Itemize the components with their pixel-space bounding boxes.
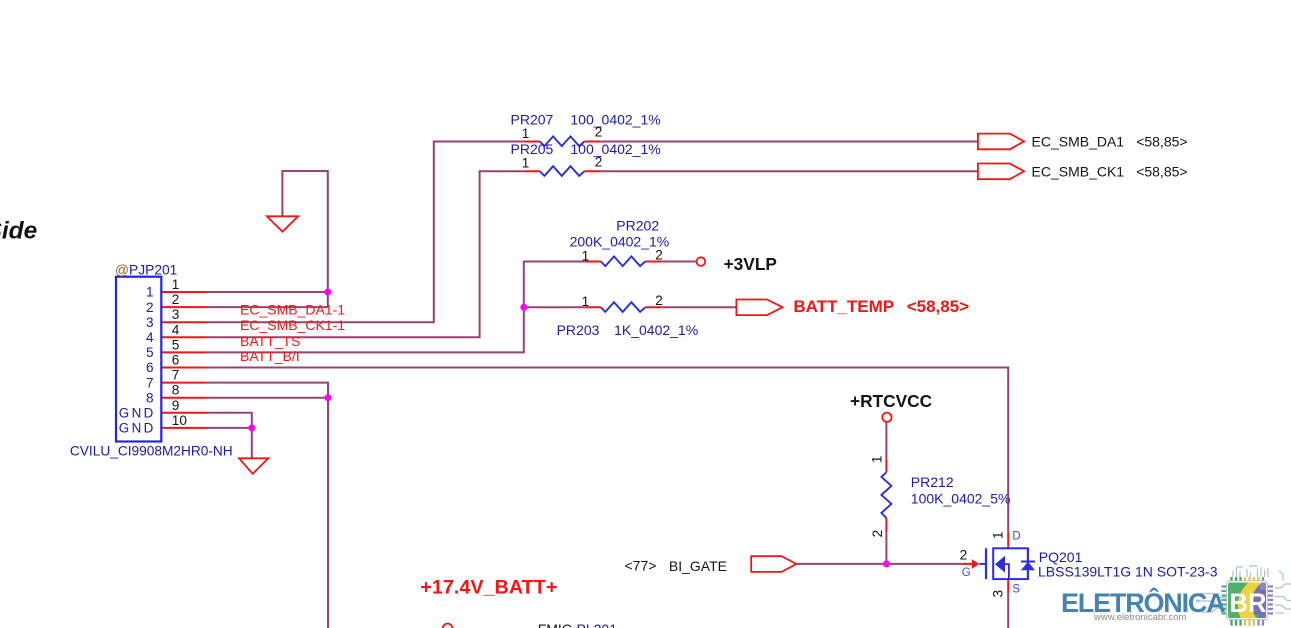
- svg-text:PR203: PR203: [557, 322, 600, 338]
- svg-text:5: 5: [146, 345, 154, 360]
- svg-text:EC_SMB_DA1: EC_SMB_DA1: [1032, 133, 1125, 149]
- svg-text:4: 4: [146, 330, 154, 345]
- svg-text:9: 9: [172, 398, 180, 413]
- svg-text:BATT_TEMP: BATT_TEMP: [793, 297, 894, 316]
- svg-text:1: 1: [522, 126, 530, 141]
- svg-text:3: 3: [172, 307, 180, 322]
- svg-text:3: 3: [146, 315, 154, 330]
- svg-text:1: 1: [146, 285, 154, 300]
- svg-text:2: 2: [655, 247, 663, 262]
- svg-text:100_0402_1%: 100_0402_1%: [570, 112, 660, 128]
- svg-text:D: D: [1012, 531, 1020, 543]
- svg-text:CVILU_CI9908M2HR0-NH: CVILU_CI9908M2HR0-NH: [70, 443, 233, 458]
- svg-text:1K_0402_1%: 1K_0402_1%: [614, 322, 698, 338]
- svg-text:BATT_TS: BATT_TS: [240, 333, 300, 349]
- svg-text:100_0402_1%: 100_0402_1%: [570, 141, 660, 157]
- svg-text:Side: Side: [0, 217, 37, 244]
- svg-text:BR: BR: [1230, 588, 1267, 618]
- svg-text:1: 1: [869, 456, 884, 464]
- svg-text:<58,85>: <58,85>: [1136, 164, 1187, 180]
- svg-text:1: 1: [172, 277, 180, 292]
- svg-text:BI_GATE: BI_GATE: [669, 558, 727, 574]
- svg-text:2: 2: [595, 125, 603, 140]
- svg-text:1: 1: [582, 248, 590, 263]
- svg-text:3: 3: [991, 590, 1006, 598]
- svg-text:G: G: [962, 567, 971, 579]
- svg-text:4: 4: [172, 322, 180, 337]
- svg-text:2: 2: [172, 292, 180, 307]
- svg-text:5: 5: [172, 337, 180, 352]
- svg-text:GND: GND: [119, 406, 156, 421]
- svg-text:200K_0402_1%: 200K_0402_1%: [570, 233, 670, 249]
- svg-text:6: 6: [172, 353, 180, 368]
- svg-text:6: 6: [146, 360, 154, 375]
- svg-text:BATT_B/I: BATT_B/I: [240, 348, 300, 364]
- svg-text:8: 8: [146, 390, 154, 405]
- svg-text:<58,85>: <58,85>: [1136, 134, 1187, 150]
- svg-text:2: 2: [146, 300, 154, 315]
- svg-text:EC_SMB_DA1-1: EC_SMB_DA1-1: [240, 302, 345, 318]
- svg-text:PR205: PR205: [511, 141, 554, 157]
- svg-text:EC_SMB_CK1-1: EC_SMB_CK1-1: [240, 317, 345, 333]
- svg-text:2: 2: [655, 293, 663, 308]
- svg-text:+17.4V_BATT+: +17.4V_BATT+: [420, 576, 557, 598]
- svg-text:100K_0402_5%: 100K_0402_5%: [911, 490, 1011, 506]
- svg-text:EC_SMB_CK1: EC_SMB_CK1: [1032, 164, 1125, 180]
- svg-text:FMIC: FMIC: [538, 621, 572, 628]
- svg-text:LBSS139LT1G 1N SOT-23-3: LBSS139LT1G 1N SOT-23-3: [1038, 563, 1218, 579]
- svg-text:PR212: PR212: [911, 474, 954, 490]
- svg-text:PL201: PL201: [577, 621, 618, 628]
- svg-text:<58,85>: <58,85>: [907, 297, 969, 316]
- svg-text:<77>: <77>: [625, 558, 657, 574]
- svg-text:1: 1: [522, 156, 530, 171]
- svg-text:1: 1: [990, 531, 1005, 539]
- svg-text:PR207: PR207: [511, 112, 554, 128]
- svg-text:S: S: [1012, 584, 1020, 596]
- svg-text:+RTCVCC: +RTCVCC: [850, 391, 932, 411]
- svg-text:1: 1: [582, 294, 590, 309]
- svg-text:PR202: PR202: [616, 218, 659, 234]
- svg-text:7: 7: [172, 368, 180, 383]
- svg-text:+3VLP: +3VLP: [724, 254, 777, 274]
- svg-text:8: 8: [172, 383, 180, 398]
- svg-text:www.eletronicabr.com: www.eletronicabr.com: [1093, 612, 1186, 623]
- svg-text:2: 2: [870, 530, 885, 538]
- svg-text:@PJP201: @PJP201: [115, 263, 177, 278]
- svg-text:2: 2: [595, 154, 603, 169]
- svg-text:10: 10: [172, 413, 188, 428]
- svg-text:7: 7: [146, 375, 154, 390]
- svg-text:2: 2: [960, 548, 968, 563]
- svg-text:GND: GND: [119, 421, 156, 436]
